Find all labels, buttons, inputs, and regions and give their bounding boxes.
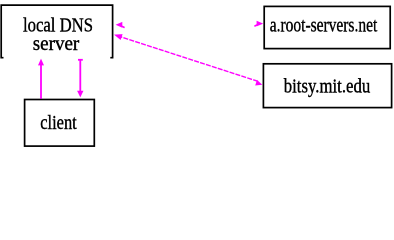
- box bitsy.mit.edu: [263, 64, 391, 108]
- label server (line 2): [33, 33, 80, 55]
- label bitsy.mit.edu: [284, 76, 371, 98]
- svg-text:a.root-servers.net: a.root-servers.net: [270, 14, 378, 36]
- svg-text:server: server: [33, 33, 80, 55]
- arrow client to local DNS server (up): [38, 59, 44, 99]
- svg-text:bitsy.mit.edu: bitsy.mit.edu: [284, 76, 371, 98]
- label client: [40, 112, 77, 134]
- svg-text:client: client: [40, 112, 77, 134]
- box local DNS server (open bottom with corner stubs): [1, 5, 112, 58]
- box a.root-servers.net: [264, 6, 390, 48]
- box client: [25, 100, 95, 147]
- arrowhead response root server to local DNS: [116, 22, 125, 28]
- label a.root-servers.net: [270, 14, 378, 36]
- arrow local DNS server to client (down): [77, 59, 83, 98]
- arrowhead query local DNS to root server: [254, 21, 263, 27]
- wire double arrow local DNS to bitsy.mit.edu (diagonal): [114, 34, 262, 85]
- label local DNS (line 1): [23, 15, 93, 37]
